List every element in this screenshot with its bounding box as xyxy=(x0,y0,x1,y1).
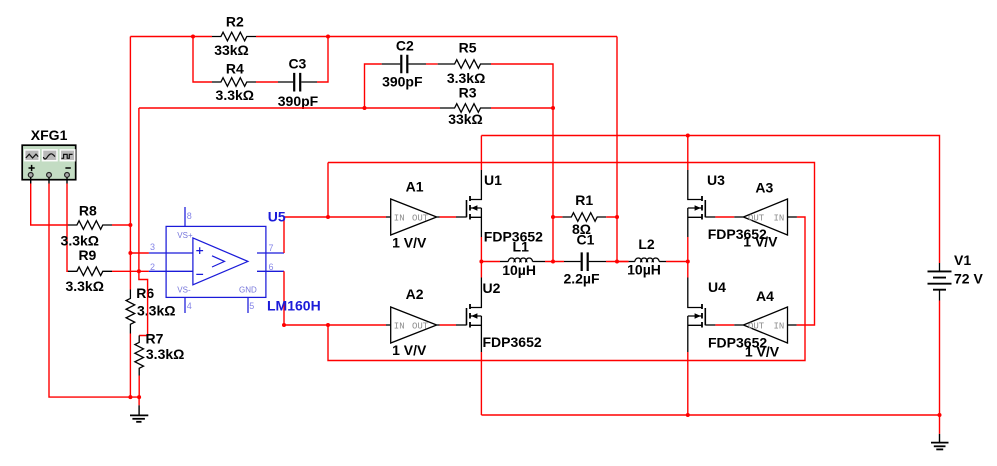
svg-text:VS+: VS+ xyxy=(177,231,193,240)
svg-text:V1: V1 xyxy=(954,252,971,268)
wire A3 input stub xyxy=(788,216,797,218)
svg-text:OUT: OUT xyxy=(748,321,765,331)
wire XFG1 plus terminal to R8 row xyxy=(31,184,68,226)
svg-text:3.3kΩ: 3.3kΩ xyxy=(61,232,99,248)
node U1-U2 output junction xyxy=(479,260,483,264)
svg-text:R8: R8 xyxy=(79,202,97,218)
svg-text:XFG1: XFG1 xyxy=(31,127,68,143)
wire A2 node cross-connect to A3 input xyxy=(328,217,805,361)
wire U3 drain to supply rail xyxy=(687,136,689,171)
svg-text:IN: IN xyxy=(774,321,785,331)
transistor U2 xyxy=(456,278,542,353)
wire A4 input stub xyxy=(788,324,797,326)
wire bottom rail xyxy=(481,414,939,416)
SECTION: right half U3 U4 A3 A4 xyxy=(688,136,797,416)
wire R3 to vertical x=553 xyxy=(491,107,553,109)
buffer A4 xyxy=(743,307,787,343)
node pin6 corner junction xyxy=(282,323,286,327)
svg-text:R6: R6 xyxy=(136,285,154,301)
wire pin3 tap xyxy=(130,252,149,254)
resistor R4 xyxy=(212,78,256,87)
svg-text:8: 8 xyxy=(187,211,192,221)
svg-text:A1: A1 xyxy=(406,179,424,195)
wire node row segment to L1 xyxy=(481,261,500,263)
wire ground stub xyxy=(138,397,140,405)
transistor U3 xyxy=(688,170,767,242)
transistor U1 xyxy=(456,170,543,245)
svg-text:3.3kΩ: 3.3kΩ xyxy=(146,346,184,362)
wire C1 to L2 node xyxy=(606,261,629,263)
wire vertical x=617 from top rail to filter node xyxy=(616,37,618,262)
node A1 input junction xyxy=(326,215,330,219)
inductor L2 xyxy=(627,236,666,277)
wire C2 branch xyxy=(365,64,382,108)
node R8 to rail junction xyxy=(128,223,132,227)
svg-text:1 V/V: 1 V/V xyxy=(743,234,778,250)
node R3-R5 right junction xyxy=(551,106,555,110)
svg-text:LM160H: LM160H xyxy=(267,297,321,313)
capacitor C1 xyxy=(563,231,606,286)
node U4 source rail junction xyxy=(686,413,690,417)
wire XFG1 common terminal to ground rail xyxy=(49,184,139,398)
node U3-U4 bridge junction xyxy=(686,260,690,264)
svg-text:R9: R9 xyxy=(78,247,96,263)
ground (left) xyxy=(130,405,148,422)
wire U2 source to bottom rail xyxy=(480,352,482,415)
pin stubs of XFG1 terminals xyxy=(31,177,67,183)
wire U2 drain from node row xyxy=(480,262,482,278)
svg-text:33kΩ: 33kΩ xyxy=(214,42,249,58)
resistor R5 xyxy=(438,60,491,69)
wire A1 input xyxy=(328,216,386,218)
wire U4 drain from bridge node xyxy=(687,262,689,278)
buffer A1 xyxy=(391,199,437,235)
svg-text:R2: R2 xyxy=(226,14,244,30)
svg-text:2: 2 xyxy=(150,262,155,272)
svg-text:U1: U1 xyxy=(484,172,502,188)
resistor R3 xyxy=(440,104,491,113)
wire pin7 to A1 input node xyxy=(284,217,328,253)
svg-text:OUT: OUT xyxy=(412,321,429,331)
capacitor C3 xyxy=(278,73,317,92)
svg-text:IN: IN xyxy=(394,321,405,331)
svg-text:U3: U3 xyxy=(707,172,725,188)
wire left rail from top feedback to R6 xyxy=(129,37,131,290)
wire R5 to vertical x=553 xyxy=(491,64,553,262)
wire V1 minus down to bottom rail xyxy=(939,301,941,434)
SECTION: mosfets U1 U2 and filter xyxy=(456,136,688,416)
svg-text:1 V/V: 1 V/V xyxy=(745,343,780,359)
wire R9 to pin2 node xyxy=(112,270,149,272)
node R2 left junction xyxy=(191,35,195,39)
resistor R8 xyxy=(68,221,112,230)
function generator XFG1 body xyxy=(22,145,75,180)
wire L2 left lead xyxy=(617,261,629,263)
node C1 left junction xyxy=(551,260,555,264)
svg-text:U5: U5 xyxy=(268,208,286,224)
node ground rail junction R6 xyxy=(128,395,132,399)
SECTION: feedback networks top xyxy=(130,14,617,272)
node ground rail junction R7 xyxy=(137,395,141,399)
SECTION: left input network xyxy=(61,37,185,422)
svg-text:A3: A3 xyxy=(755,179,773,195)
node pin2 junction xyxy=(137,269,141,273)
wire top rail y=36.5 R2 row xyxy=(130,36,617,38)
SECTION: XFG1 xyxy=(22,127,139,397)
wire pin2 node jog down to R7 xyxy=(139,271,148,335)
resistor R6 xyxy=(126,290,135,334)
svg-text:33kΩ: 33kΩ xyxy=(448,111,483,127)
wire C3 up to R2 rail xyxy=(317,37,328,83)
svg-text:1 V/V: 1 V/V xyxy=(392,342,427,358)
svg-text:10µH: 10µH xyxy=(502,262,536,278)
svg-text:3: 3 xyxy=(150,242,155,252)
svg-text:5: 5 xyxy=(249,301,254,311)
wire A1 output to U1 gate xyxy=(437,216,440,218)
wire R6 to ground rail xyxy=(129,334,131,398)
node V1 bottom rail junction xyxy=(938,413,942,417)
node pin3 junction xyxy=(128,251,132,255)
svg-text:VS-: VS- xyxy=(177,285,191,294)
wire L1 to C1 node xyxy=(545,261,564,263)
node R1 left junction xyxy=(551,215,555,219)
svg-text:C3: C3 xyxy=(288,56,306,72)
svg-text:R4: R4 xyxy=(226,61,244,77)
svg-text:FDP3652: FDP3652 xyxy=(483,334,542,350)
svg-text:72 V: 72 V xyxy=(954,271,983,287)
svg-text:C2: C2 xyxy=(396,38,414,54)
wire U3 source to bridge node xyxy=(687,237,689,262)
node C1 right junction xyxy=(615,260,619,264)
wire R4 to C3 xyxy=(256,81,278,83)
inductor L1 xyxy=(500,239,545,279)
svg-text:3.3kΩ: 3.3kΩ xyxy=(216,87,254,103)
ground (right) xyxy=(931,434,949,450)
svg-text:2.2µF: 2.2µF xyxy=(563,270,600,286)
wire U3 gate to A3 output xyxy=(715,216,734,218)
SECTION: op-amp U5 xyxy=(149,207,328,325)
svg-text:IN: IN xyxy=(394,213,405,223)
svg-text:A2: A2 xyxy=(406,286,424,302)
svg-text:R3: R3 xyxy=(459,84,477,100)
wire U1 drain to supply rail xyxy=(480,136,482,171)
svg-text:R7: R7 xyxy=(146,331,164,347)
wire R7 to ground rail xyxy=(138,376,140,398)
svg-text:10µH: 10µH xyxy=(627,261,661,277)
svg-text:A4: A4 xyxy=(756,288,774,304)
svg-text:6: 6 xyxy=(269,262,274,272)
svg-text:3.3kΩ: 3.3kΩ xyxy=(65,278,103,294)
wire U1 source to node row xyxy=(480,237,482,262)
node A2 input junction xyxy=(326,323,330,327)
resistor R1 xyxy=(562,213,606,222)
SECTION: supply V1 and rails xyxy=(481,136,983,450)
transistor U4 xyxy=(688,278,768,416)
svg-text:OUT: OUT xyxy=(748,213,765,223)
resistor R9 xyxy=(68,267,112,276)
node R2 right junction xyxy=(326,35,330,39)
wire rail 2 y=108 row xyxy=(139,108,440,271)
node C2 branch junction xyxy=(363,106,367,110)
resistor R2 xyxy=(212,32,256,41)
svg-text:R1: R1 xyxy=(575,192,593,208)
svg-text:U2: U2 xyxy=(483,280,501,296)
wire A1 node cross-connect to A4 input xyxy=(328,163,815,326)
wire A2 input xyxy=(328,324,386,326)
SECTION: buffers A1 A2 xyxy=(328,163,815,361)
wire R1 leads xyxy=(553,216,617,218)
svg-text:3.3kΩ: 3.3kΩ xyxy=(137,303,175,319)
wire L2 to right bridge node xyxy=(666,261,688,263)
svg-text:390pF: 390pF xyxy=(278,93,319,109)
svg-text:7: 7 xyxy=(269,243,274,253)
battery V1 xyxy=(928,252,984,301)
svg-text:L1: L1 xyxy=(513,239,530,255)
svg-text:390pF: 390pF xyxy=(382,73,423,89)
wire pin6 to A2 input node xyxy=(284,271,328,325)
wire A2 output to U2 gate xyxy=(437,324,440,326)
node R1 right junction xyxy=(615,215,619,219)
svg-text:IN: IN xyxy=(774,213,785,223)
resistor R7 xyxy=(135,336,144,376)
svg-text:OUT: OUT xyxy=(412,213,429,223)
svg-text:R5: R5 xyxy=(459,39,477,55)
wire XFG1 minus terminal to R9 row xyxy=(67,184,69,272)
wire U4 gate to A4 output xyxy=(715,324,734,326)
svg-text:U4: U4 xyxy=(708,279,726,295)
wire branch vertical left of R4 xyxy=(193,37,212,83)
buffer A3 xyxy=(743,199,787,235)
SECTION: junction dots xyxy=(128,35,941,418)
op-amp U5 body xyxy=(149,207,284,313)
wire C2 to R5 xyxy=(426,63,438,65)
svg-text:GND: GND xyxy=(239,285,257,294)
svg-text:L2: L2 xyxy=(638,236,655,252)
buffer A2 xyxy=(391,307,437,343)
wire R8 to node rail xyxy=(112,224,130,226)
svg-text:1 V/V: 1 V/V xyxy=(392,234,427,250)
wire top supply rail xyxy=(481,136,939,264)
svg-text:4: 4 xyxy=(187,301,192,311)
node U3 drain rail junction xyxy=(686,134,690,138)
svg-text:8Ω: 8Ω xyxy=(572,221,591,237)
capacitor C2 xyxy=(382,55,426,74)
